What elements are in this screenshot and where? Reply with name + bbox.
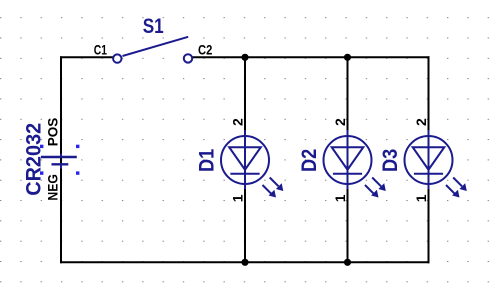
svg-text:2: 2	[332, 118, 348, 126]
svg-text:D1: D1	[194, 149, 218, 172]
wire: bottom rail	[60, 261, 430, 263]
LED D1	[221, 130, 283, 198]
svg-text:CR2032: CR2032	[22, 123, 46, 196]
switch S1	[113, 37, 192, 63]
svg-text:2: 2	[413, 118, 429, 126]
svg-text:C2: C2	[198, 41, 212, 57]
svg-text:2: 2	[229, 118, 245, 126]
svg-text:S1: S1	[143, 14, 164, 38]
label S1	[143, 14, 164, 38]
pin number 2 (D2)	[332, 118, 348, 126]
wire: D1 branch top	[244, 57, 246, 136]
wire: D3 branch bottom	[428, 184, 430, 263]
wire: D2 branch bottom	[347, 184, 349, 262]
junction: top rail / D1 branch	[241, 54, 248, 61]
svg-text:D2: D2	[297, 149, 321, 172]
pin number 1 (D1)	[229, 194, 245, 202]
svg-text:1: 1	[332, 194, 348, 202]
pin number 2 (D3)	[413, 118, 429, 126]
wire: left vertical from top rail to bottom rail	[60, 56, 62, 263]
wire: D1 branch bottom	[244, 184, 246, 262]
label CR2032	[22, 123, 46, 196]
junction: top rail / D2 branch	[344, 54, 351, 61]
wire: D2 branch top	[347, 57, 349, 136]
pin number 1 (D2)	[332, 194, 348, 202]
svg-text:1: 1	[413, 194, 429, 202]
svg-text:POS: POS	[44, 118, 60, 147]
label D3	[378, 149, 402, 172]
pin label C2	[198, 41, 212, 57]
wire: top rail from switch C2 to right corner	[192, 56, 430, 58]
junction: bottom rail / D1 branch	[241, 259, 248, 266]
label D1	[194, 149, 218, 172]
wire: top rail from left corner to switch C1	[60, 56, 114, 58]
battery BT1 CR2032	[40, 145, 79, 175]
svg-text:D3: D3	[378, 149, 402, 172]
pin number 2 (D1)	[229, 118, 245, 126]
pin number 1 (D3)	[413, 194, 429, 202]
pin label POS	[44, 118, 60, 147]
pin label NEG	[44, 174, 60, 201]
wire: right vertical (D3 branch top)	[428, 56, 430, 136]
svg-text:C1: C1	[94, 41, 107, 57]
label D2	[297, 149, 321, 172]
svg-text:1: 1	[229, 194, 245, 202]
svg-text:NEG: NEG	[44, 174, 60, 201]
junction: bottom rail / D2 branch	[344, 259, 351, 266]
pin label C1	[94, 41, 107, 57]
LED D3	[405, 130, 467, 198]
LED D2	[324, 130, 386, 198]
